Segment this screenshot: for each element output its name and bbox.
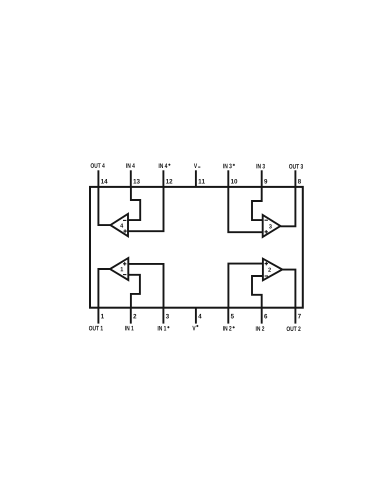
wire pin13 to op-amp 4 inverting input (128, 187, 140, 220)
pin 6 number (264, 314, 267, 319)
wire pin6 to op-amp 2 inverting input (252, 276, 263, 308)
pin 7 lead (294, 308, 296, 324)
node OUT 3 label (289, 164, 303, 169)
pin 5 number (231, 314, 234, 319)
pin 1 number (101, 314, 104, 318)
op-amp 4 (110, 214, 128, 236)
pin 3 number (166, 314, 169, 319)
pin 7 number (298, 314, 301, 318)
node V+ label (192, 325, 198, 330)
pin 10 number (231, 179, 237, 184)
op-amp 3 (263, 215, 281, 237)
wire pin12 to op-amp 4 non-inverting input (128, 187, 164, 231)
pin 5 lead (227, 308, 229, 324)
node IN 4 label (126, 163, 135, 167)
pin 6 lead (261, 308, 263, 324)
pin 9 lead (261, 170, 263, 187)
wire pin14 to op-amp 4 output (98, 187, 110, 225)
node OUT 4 label (91, 163, 105, 168)
wire pin3 to op-amp 1 non-inverting input (128, 264, 163, 308)
wire pin10 to op-amp 3 non-inverting input (228, 187, 262, 232)
pin 2 lead (130, 308, 132, 324)
wire pin7 to op-amp 2 output (282, 270, 295, 308)
pin 8 number (298, 179, 301, 184)
pin 14 lead (97, 170, 99, 187)
pin 3 lead (162, 308, 164, 324)
wire pin2 to op-amp 1 inverting input (128, 275, 140, 308)
node IN 2+ label (223, 326, 235, 331)
wire pin1 to op-amp 1 output (98, 269, 110, 308)
pin 14 number (101, 179, 107, 183)
pin 12 lead (162, 170, 164, 187)
node IN 3+ label (223, 164, 235, 169)
pin 13 lead (130, 170, 132, 187)
pin 9 number (264, 179, 267, 184)
node IN 3 label (256, 164, 264, 169)
wire pin9 to op-amp 3 inverting input (252, 187, 263, 220)
pin 11 lead (195, 170, 197, 187)
pin 8 lead (294, 170, 296, 187)
node V- label (194, 164, 200, 168)
pin 13 number (133, 179, 139, 184)
op-amp 2 (263, 259, 282, 281)
node IN 1 label (125, 326, 133, 330)
op-amp 1 (110, 258, 128, 280)
wire pin5 to op-amp 2 non-inverting input (228, 264, 263, 308)
pin 4 number (198, 314, 201, 318)
pin 10 lead (227, 170, 229, 187)
pin 1 lead (97, 308, 99, 324)
node IN 2 label (256, 326, 264, 331)
node IN 4+ label (159, 164, 171, 168)
IC body outline (90, 187, 303, 308)
pin 11 number (199, 179, 205, 183)
wire pin8 to op-amp 3 output (280, 187, 295, 226)
node OUT 1 label (89, 326, 103, 331)
pin 4 lead (195, 308, 197, 324)
node IN 1+ label (158, 326, 170, 330)
pin 12 number (166, 179, 172, 184)
node OUT 2 label (287, 326, 301, 331)
pin 2 number (133, 314, 136, 319)
